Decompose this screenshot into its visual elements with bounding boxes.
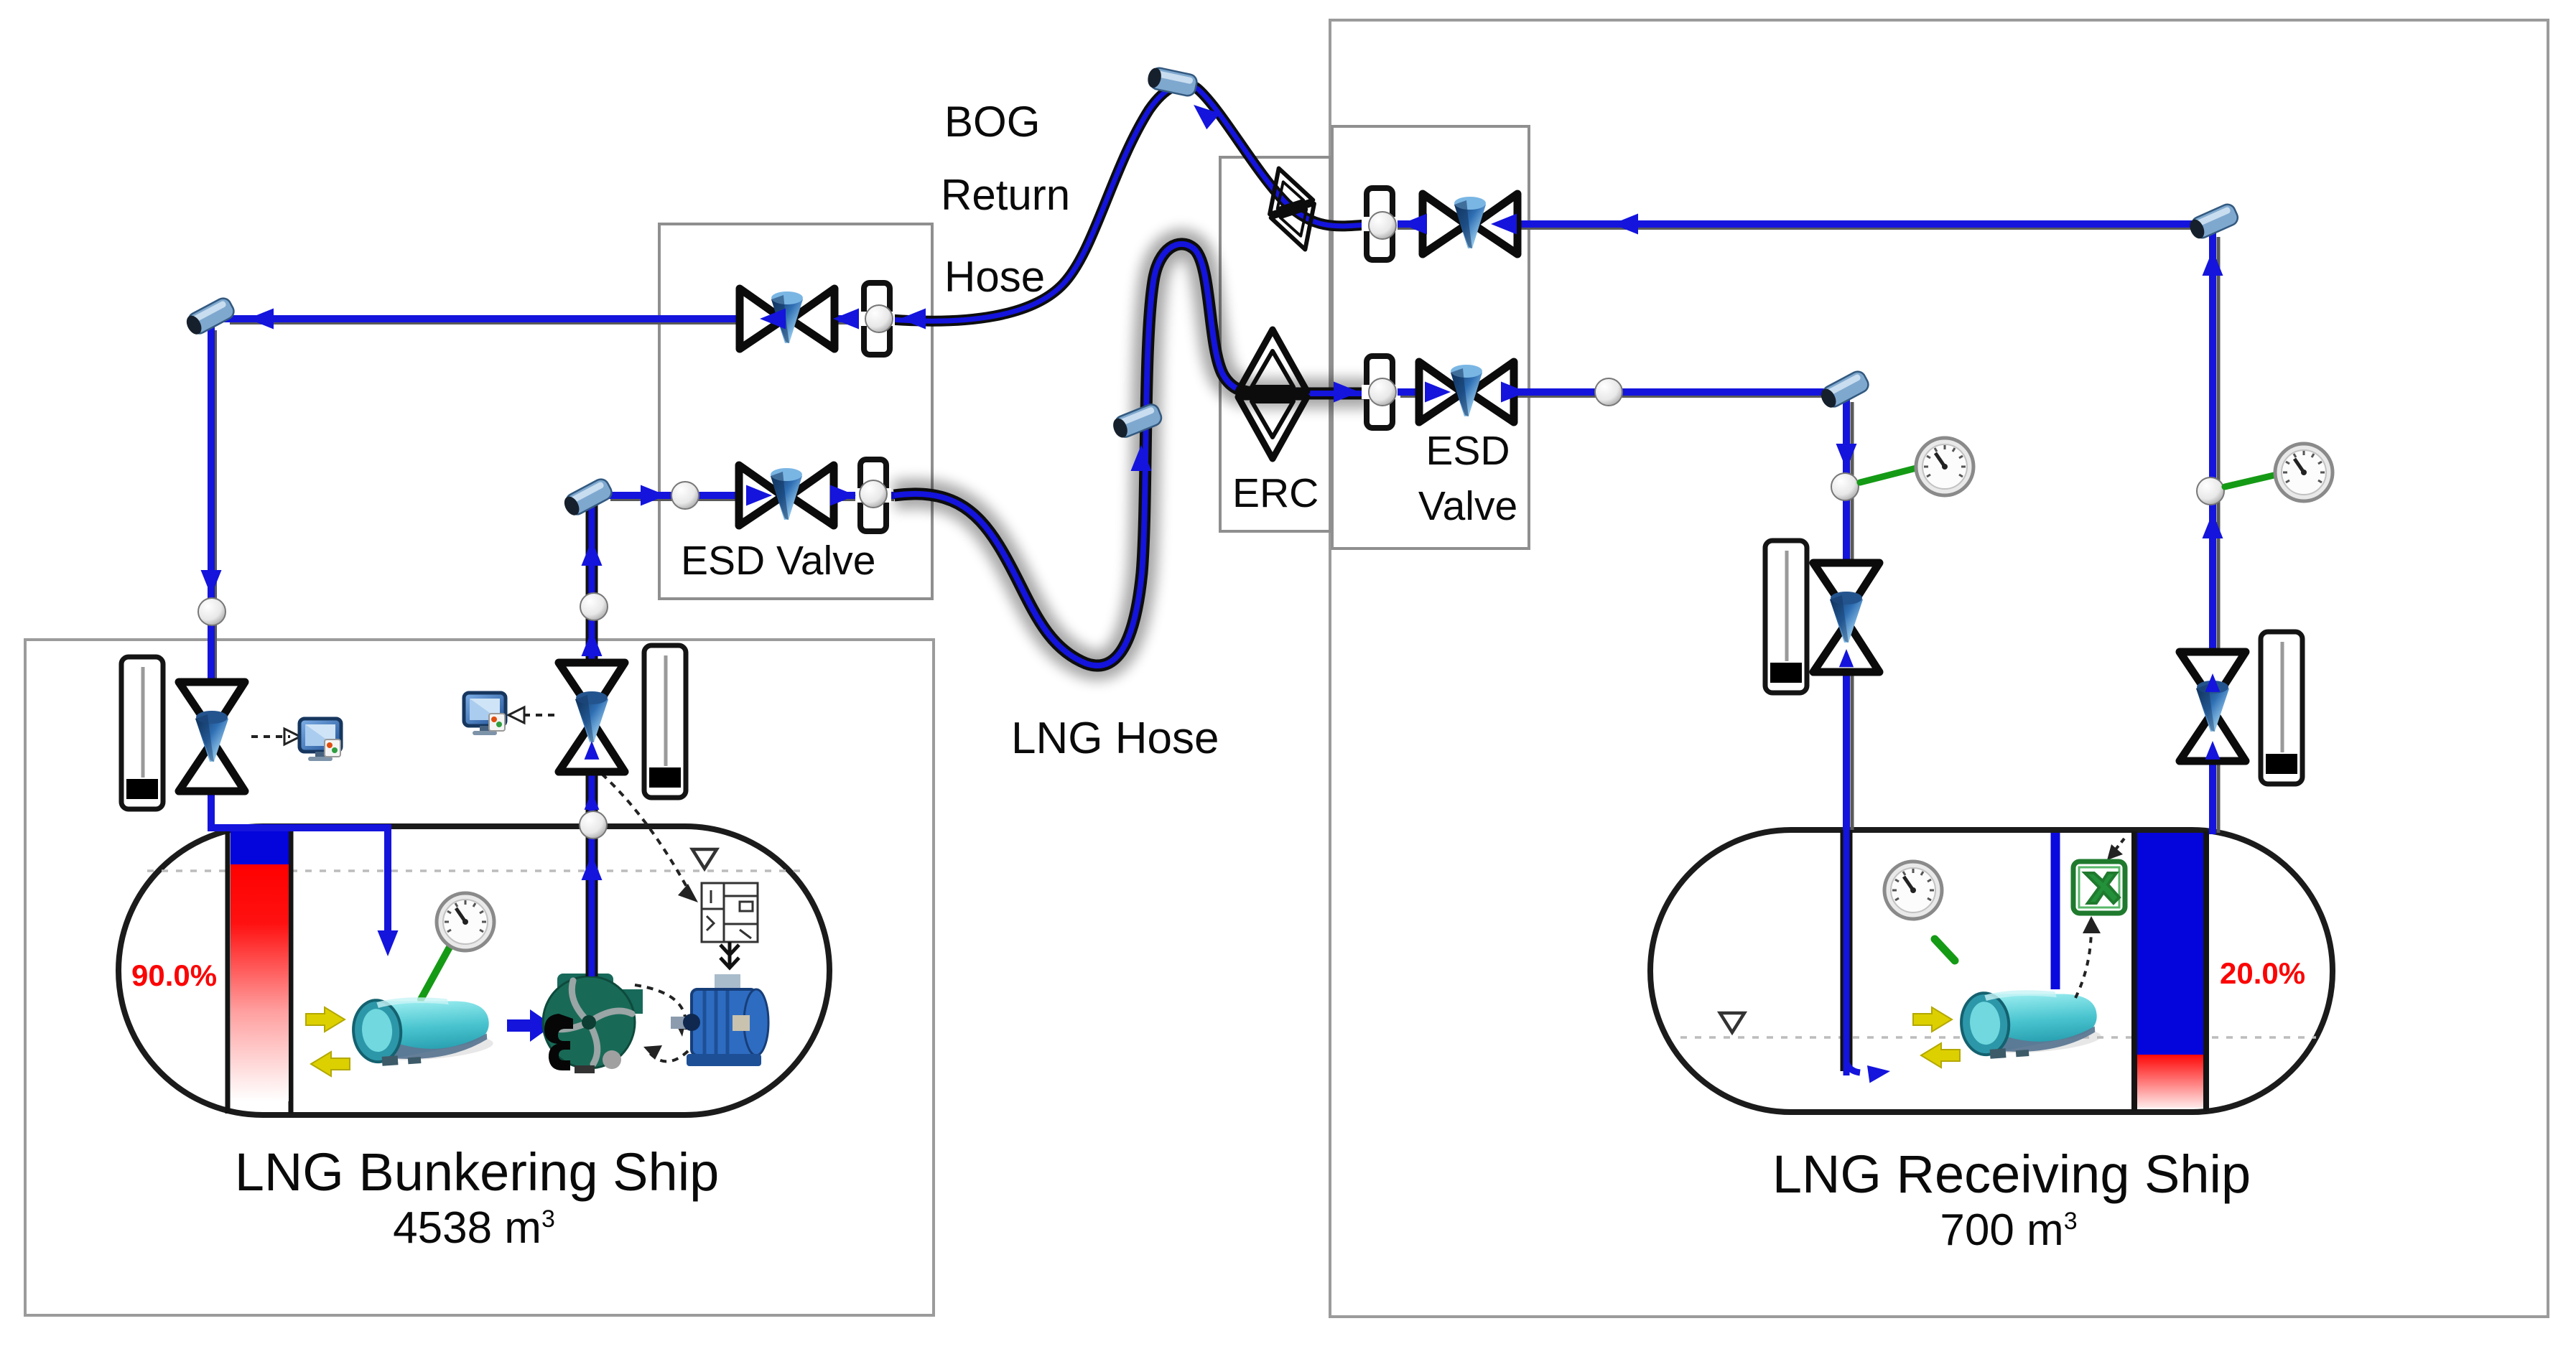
- bunkering tank level dashed line: [147, 869, 803, 872]
- flow arrows up bunkering LNG riser: [582, 540, 603, 566]
- LNG hose glow: [894, 244, 1373, 666]
- excel icon: [2073, 862, 2125, 913]
- left tank pump (green fan): [543, 974, 643, 1073]
- node ball on bunkering LNG line: [671, 482, 699, 509]
- flow arrow left on BOG line near elbow: [248, 309, 274, 330]
- flow arrow left between V1 and F1: [833, 309, 859, 330]
- flow arrow left right of F1: [900, 309, 926, 330]
- receiving tank outlet arrow: [1846, 1063, 1860, 1073]
- node ball at F2: [860, 480, 887, 508]
- elbow E6 receiving BOG corner: [2187, 202, 2240, 241]
- BOG pipe: bunkering top horizontal: [230, 322, 898, 325]
- svg-text:ERC: ERC: [1232, 470, 1319, 516]
- level sensor S3: [1765, 541, 1807, 693]
- LNG pipe inside receiving tank: [1841, 830, 1853, 1071]
- nabla level mark right tank: [1720, 1013, 1744, 1032]
- ESD Valve box right: [1332, 126, 1529, 549]
- left tank motor: [671, 974, 768, 1066]
- valve V4 ESD LNG right (horizontal): [1419, 362, 1514, 422]
- right tank pressure gauge G2: [1884, 862, 1942, 919]
- bunkering ship tank: [118, 826, 829, 1115]
- left tank pump dashed link to schematic: [602, 774, 691, 895]
- flow arrow down on left riser: [201, 570, 222, 596]
- node ball at F4: [1369, 378, 1396, 406]
- valve V7 receiving LNG (vertical): [1813, 563, 1879, 672]
- receiving tank level dashed line: [1680, 1036, 2316, 1039]
- svg-text:4538 m3: 4538 m3: [393, 1203, 555, 1253]
- valve V8 receiving BOG (vertical): [2180, 652, 2246, 761]
- left tank yellow arrow out: [311, 1052, 350, 1076]
- svg-text:LNG Hose: LNG Hose: [1011, 714, 1219, 763]
- level sensor S2: [644, 645, 686, 798]
- svg-text:BOG: BOG: [944, 98, 1040, 146]
- node ball at F3: [1369, 212, 1396, 239]
- left tank compressor: [351, 992, 494, 1068]
- ERC box: [1220, 157, 1331, 531]
- flange F4: [1362, 356, 1398, 428]
- left tank yellow arrow in: [306, 1007, 345, 1032]
- BOG pipe: receiving riser: [2217, 237, 2221, 833]
- flow arrow up into valve V7: [1839, 649, 1854, 667]
- LNG Bunkering Ship outer box: [25, 640, 934, 1315]
- valve V3 ESD BOG right (horizontal): [1423, 194, 1517, 254]
- dashed link valve V5 to computer C1: [251, 735, 290, 738]
- valve V6 bunkering LNG (vertical): [559, 663, 625, 772]
- fill line arrowhead: [378, 930, 399, 956]
- BOG hose: [891, 84, 1366, 321]
- ESD Valve box left: [659, 224, 932, 599]
- nabla level mark left tank: [692, 849, 717, 869]
- ERC coupling symbol on LNG line: [1238, 330, 1307, 459]
- flow arrows up receiving BOG riser: [2203, 250, 2223, 276]
- left tank motor dashed cycle: [635, 985, 686, 1030]
- svg-text:90.0%: 90.0%: [131, 958, 217, 992]
- dashed link valve V6 to computer C2: [519, 714, 554, 716]
- LNG Receiving Ship outer box: [1330, 20, 2548, 1317]
- level sensor S1: [121, 657, 163, 809]
- svg-text:Return: Return: [941, 171, 1070, 219]
- BOG pipe: below valve to tank: [208, 788, 215, 831]
- ERC coupling symbol on BOG hose (rotated): [1257, 162, 1327, 257]
- receiving ship tank: [1650, 830, 2333, 1112]
- computer C1: [299, 719, 341, 761]
- left tank blue arrow to pump: [507, 1009, 553, 1042]
- BOG pipe: left riser: [214, 330, 217, 678]
- computer C2: [464, 693, 506, 735]
- bunkering tank vapor cap (blue): [231, 831, 289, 864]
- flange F3: [1362, 188, 1398, 260]
- small dashed arrow into excel top: [2113, 839, 2124, 853]
- node ball receiving BOG riser: [2197, 477, 2224, 505]
- pump schematic box: [702, 883, 758, 942]
- node ball bunkering LNG riser upper: [580, 593, 608, 620]
- dashed arrow compressor to excel: [2075, 928, 2091, 998]
- svg-text:Hose: Hose: [944, 253, 1045, 301]
- flow arrows left on receiving BOG line: [1401, 214, 1427, 235]
- valve V2 ESD LNG left (horizontal): [739, 465, 834, 526]
- node ball on left riser: [198, 598, 225, 625]
- flange F1: [859, 283, 895, 355]
- receiving tank liquid (red gradient 20%): [2137, 1055, 2203, 1108]
- flow arrows right on receiving LNG line: [1334, 382, 1359, 403]
- svg-text:ESD: ESD: [1426, 428, 1510, 474]
- valve V5 bunkering BOG (vertical): [179, 682, 245, 791]
- flange F2: [855, 459, 891, 531]
- schematic to motor chevron arrows: [720, 942, 739, 968]
- svg-text:20.0%: 20.0%: [2220, 956, 2305, 990]
- right tank sounding line (blue): [2051, 833, 2060, 989]
- flow arrow on BOG hose toward apex: [1187, 97, 1220, 129]
- valve V1 ESD BOG left (horizontal): [740, 289, 834, 349]
- gauge G3 with green tap: [1860, 467, 1922, 482]
- right tank yellow arrow out: [1921, 1043, 1960, 1068]
- node ball bunkering LNG riser tank top: [580, 811, 607, 839]
- elbow E1 top-left: [183, 296, 236, 337]
- bunkering tank liquid column (red gradient 90%): [231, 864, 289, 1101]
- LNG hose: [894, 244, 1368, 666]
- LNG pipe: receiving downcomer: [1851, 402, 1854, 830]
- BOG pipe: receiving top horizontal: [1364, 227, 2210, 230]
- LNG pipe: bunkering horizontal to ESD: [610, 498, 894, 501]
- svg-text:Valve: Valve: [1418, 483, 1517, 529]
- node ball at F1: [865, 305, 893, 332]
- bunkering tank gauge column walls: [225, 828, 231, 1114]
- right tank compressor: [1959, 985, 2102, 1061]
- node ball receiving LNG downcomer: [1831, 473, 1859, 500]
- receiving tank vapor column (blue 80%): [2137, 833, 2203, 1055]
- elbow E5 receiving LNG corner: [1818, 369, 1871, 411]
- flow arrows right on bunkering LNG line: [641, 485, 666, 506]
- flow arrow down receiving LNG downcomer: [1836, 444, 1857, 470]
- LNG pipe: receiving horizontal: [1400, 395, 1843, 398]
- elbow E2 bunkering LNG top: [561, 477, 614, 518]
- gauge G4 with green tap: [2225, 474, 2280, 487]
- level sensor S4: [2261, 632, 2302, 784]
- flow arrow up on LNG hose rise: [1131, 445, 1152, 471]
- flow arrow left at valve V1: [760, 309, 786, 330]
- right tank yellow arrow in: [1913, 1007, 1952, 1032]
- LNG pipe: bunkering riser: [586, 503, 598, 976]
- elbow E4 LNG hose connector: [1110, 402, 1163, 440]
- svg-text:LNG Receiving Ship: LNG Receiving Ship: [1772, 1144, 2251, 1204]
- svg-text:LNG Bunkering Ship: LNG Bunkering Ship: [235, 1142, 720, 1202]
- elbow E3 BOG hose apex: [1146, 66, 1199, 97]
- receiving tank gauge column walls: [2131, 831, 2137, 1111]
- node ball on receiving LNG line: [1595, 378, 1622, 406]
- bunkering tank fill line: [211, 828, 388, 930]
- svg-text:ESD Valve: ESD Valve: [681, 538, 875, 584]
- svg-text:700 m3: 700 m3: [1940, 1205, 2077, 1255]
- left tank pressure gauge G1: [421, 942, 452, 999]
